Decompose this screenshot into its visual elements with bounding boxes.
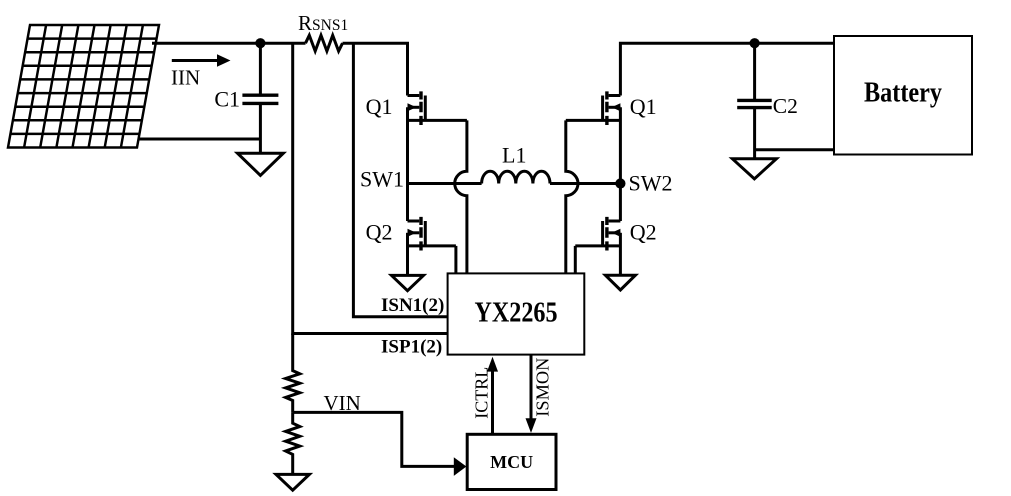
svg-text:ICTRL: ICTRL [472, 367, 492, 419]
wire ISP1 tap [293, 43, 448, 333]
capacitor C2 [737, 43, 772, 159]
svg-text:RSNS1: RSNS1 [298, 11, 348, 35]
svg-text:SW1: SW1 [360, 167, 404, 192]
wire Q1 left source rail to Q2 drain [406, 107, 409, 221]
node SW1 wire [408, 182, 482, 185]
resistor R1 divider top [286, 334, 300, 413]
inductor L1 [482, 171, 550, 183]
wire battery negative to ground [755, 148, 834, 151]
wire gate lead Q1 left with hop over SW1 [455, 120, 467, 273]
node SW2 junction dot [615, 178, 625, 188]
wire gate lead Q1 right with hop over SW2 [566, 120, 578, 273]
svg-text:ISMON: ISMON [532, 358, 552, 417]
wire solar bottom return [138, 138, 260, 141]
ground G5 under divider [276, 474, 309, 490]
battery box [834, 36, 972, 155]
capacitor C1 [242, 43, 278, 153]
svg-text:SW2: SW2 [629, 171, 673, 196]
svg-text:Q1: Q1 [630, 94, 657, 119]
wire gate lead Q2 left [454, 246, 457, 274]
svg-text:YX2265: YX2265 [475, 297, 558, 329]
svg-text:L1: L1 [502, 143, 526, 168]
MCU box [467, 434, 556, 489]
ground G4 under C2 [732, 159, 776, 179]
ground G1 under C1 [238, 153, 284, 175]
svg-text:MCU: MCU [490, 452, 533, 472]
transistor Q2 (right) [575, 217, 620, 251]
wire Q2 left source to ground [406, 233, 409, 276]
svg-text:C2: C2 [773, 94, 798, 118]
wire RSNS1 to Q1 left drain [343, 43, 408, 95]
transistor Q1 (left) [408, 91, 467, 125]
ground G2 under Q2 left [392, 275, 424, 290]
wire VIN to MCU [293, 412, 467, 476]
svg-text:ISN1(2): ISN1(2) [381, 295, 444, 316]
ICTRL arrow [487, 357, 498, 435]
wire L1 to SW2 [550, 182, 620, 185]
IIN arrow [172, 54, 231, 66]
wire SW2 rail up to Q1 right [619, 107, 622, 183]
ISMON arrow [526, 355, 537, 433]
ground G3 under Q2 right [605, 275, 635, 290]
wire solar top to node A [152, 42, 306, 45]
transistor Q1 (right) [566, 91, 621, 125]
svg-text:Q2: Q2 [366, 220, 393, 245]
svg-text:C1: C1 [214, 87, 240, 112]
svg-text:Q1: Q1 [366, 94, 393, 119]
node A junction dot [255, 38, 265, 48]
IC YX2265 box [448, 273, 585, 354]
svg-text:Q2: Q2 [630, 220, 657, 245]
transistor Q2 (left) [408, 217, 456, 251]
svg-text:IIN: IIN [171, 65, 200, 89]
solar panel PV [8, 25, 159, 148]
wire Q2 right source to ground [619, 233, 622, 275]
wire gate lead Q2 right [574, 246, 577, 274]
svg-text:ISP1(2): ISP1(2) [381, 337, 442, 358]
wire ISN1 tap [353, 43, 447, 317]
wire SW2 to Q2 right drain [619, 184, 622, 222]
svg-text:Battery: Battery [864, 78, 942, 109]
resistor R2 divider bottom [286, 412, 300, 474]
wire Q1 right drain to battery rail [620, 43, 834, 95]
node B junction dot at C2 [750, 38, 760, 48]
resistor RSNS1 [306, 35, 343, 51]
